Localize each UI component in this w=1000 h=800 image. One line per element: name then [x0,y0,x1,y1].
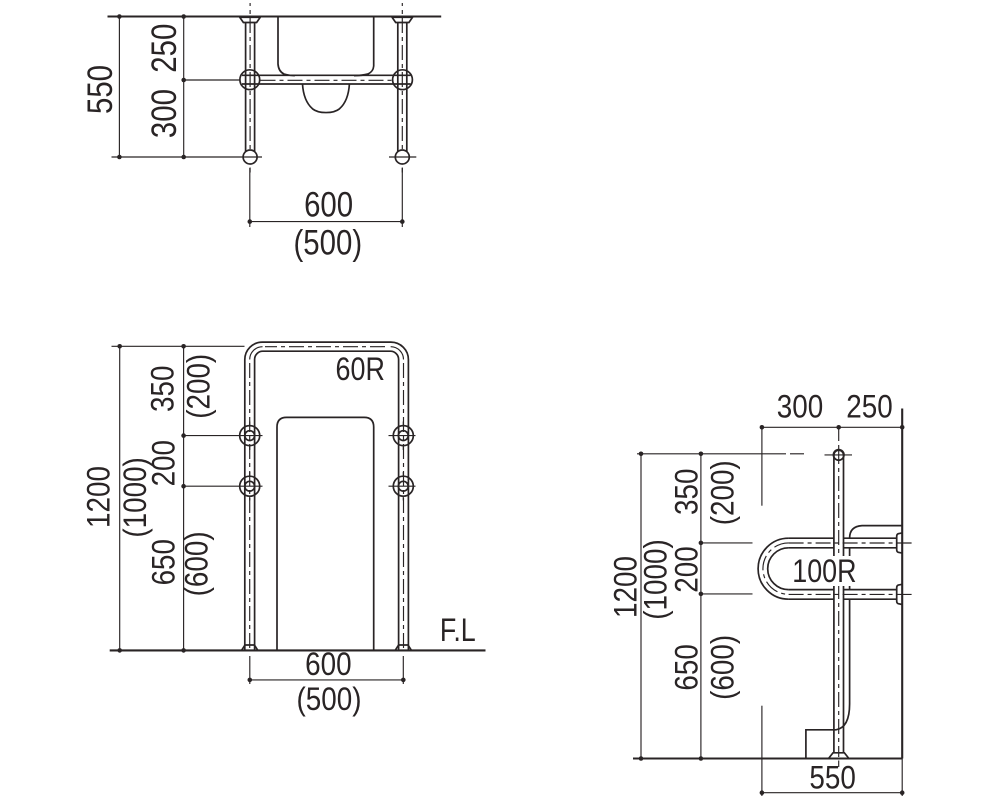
urinal profile top (side) [850,526,903,539]
right wall flange (plan) [392,17,412,22]
dimension 350/200/650 line (side) [700,454,702,759]
post centerline [838,449,840,757]
right post base flange [395,645,411,650]
upper-left rail flange ring (front) [240,426,260,446]
urinal bowl (plan) [303,84,350,113]
wall line (side) [901,409,903,759]
svg-text:550: 550 [809,761,855,796]
extension line at crossbar center [184,79,240,81]
left rail tube (plan) [245,23,247,153]
svg-text:(500): (500) [297,682,362,717]
svg-text:300: 300 [144,89,183,138]
left post socket circle (plan) [240,70,260,90]
extension line at rail ends [112,156,263,158]
bottom rail centerline [789,593,916,595]
dimension 600 bottom (front) [249,656,251,684]
right rail U-bend end (plan) [395,150,409,164]
floor line (front) [110,649,486,651]
U-frame centerline [249,360,251,649]
svg-text:60R: 60R [336,352,385,388]
post dome top [834,450,844,455]
top extension line (side left) [637,453,786,455]
svg-text:350: 350 [146,366,181,412]
U-frame inner edge [255,351,399,650]
urinal body (front) [277,417,374,650]
top rail centerline [789,542,916,544]
dimension 600 bottom (plan) [249,168,251,227]
dimension 250/300 line [183,17,185,158]
dimension 350/200/650 line (front) [183,346,185,650]
dimension 550 line (side bottom) [761,706,763,796]
extension left of 300 dim [761,427,763,505]
svg-text:350: 350 [670,469,705,515]
loop 100R bend outer arc [758,538,789,599]
svg-text:(1000): (1000) [639,539,674,619]
crossbar frame top edge (plan) [242,74,411,76]
wall line extension below floor [901,759,903,797]
dimension 300/250 line (side top) [762,426,902,428]
dimension 1200 line (front) [119,346,121,650]
left wall flange (plan) [240,17,260,22]
loop top rail (side) [789,537,834,539]
left rail U-bend end (plan) [243,150,257,164]
lower-left rail flange ring (front) [240,476,260,496]
top extension line (front) [112,345,245,347]
svg-text:(600): (600) [706,635,741,700]
urinal foot (side) [806,704,850,759]
loop bottom rail (side) [789,589,834,591]
upper wall flange (side) [897,533,903,553]
U-frame outer edge [245,342,409,650]
right rail centerline [401,3,403,151]
svg-text:(200): (200) [706,460,741,525]
svg-text:250: 250 [144,24,183,73]
svg-text:(200): (200) [182,354,217,419]
svg-text:(500): (500) [293,223,362,262]
right rail tube (plan) [397,23,399,153]
svg-text:650: 650 [147,539,182,585]
extension line upper socket (front) [184,435,263,437]
svg-text:200: 200 [670,546,705,592]
wall line (plan view) [108,15,442,17]
svg-text:F.L: F.L [440,613,476,649]
extension line lower socket (front) [184,485,263,487]
svg-text:650: 650 [670,644,705,690]
crossbar frame bottom edge (plan) [242,83,411,85]
svg-text:(600): (600) [180,531,215,596]
extension upper rail (side) [701,542,753,544]
post base flange (side) [829,753,849,759]
urinal front face (side) [849,548,851,590]
urinal outline (plan) [278,17,295,76]
vertical post (side) [833,455,835,753]
svg-text:300: 300 [777,390,823,425]
left rail centerline [249,3,251,151]
svg-text:1200: 1200 [82,466,117,528]
svg-text:550: 550 [81,65,120,114]
svg-text:200: 200 [147,440,182,486]
extension lower rail (side) [701,593,753,595]
ring crosshairs right post [389,435,416,437]
left post base flange [242,645,258,650]
post cap crosshair [825,454,853,456]
right post socket circle (plan) [393,70,413,90]
label 100R with white background [789,556,859,586]
dimension 1200 line (side) [640,454,642,759]
ring vertical dashes [249,422,251,427]
post cap circle [833,450,844,461]
svg-text:100R: 100R [792,554,856,590]
svg-text:600: 600 [305,647,351,682]
loop bend centerline arc [763,543,789,594]
svg-text:600: 600 [304,185,353,224]
extension pipe center from 300 dim [838,427,840,441]
loop 100R bend inner arc [768,548,789,590]
upper-right rail flange ring (front) [393,426,413,446]
floor line (side) [633,757,902,759]
crossbar centerline [261,79,393,81]
lower-right rail flange ring (front) [393,476,413,496]
lower wall flange (side) [897,584,903,604]
svg-text:250: 250 [846,390,892,425]
dimension 550 line [118,17,120,158]
